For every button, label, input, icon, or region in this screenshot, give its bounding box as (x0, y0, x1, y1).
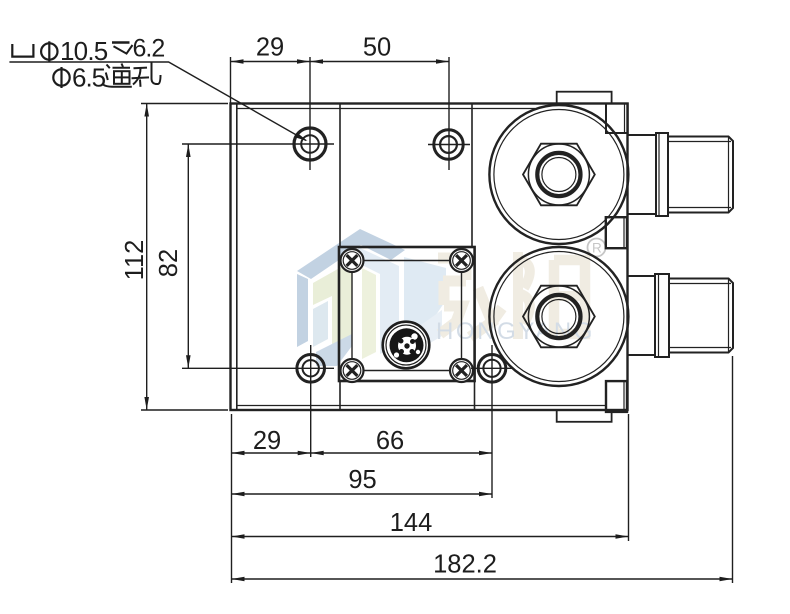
bottom hex nut (523, 286, 595, 348)
dim 112 extension top (141, 103, 228, 105)
bottom port connector ring (655, 274, 669, 357)
hole top-left (counterbore) (294, 128, 326, 160)
dim line 182.2 (232, 578, 733, 580)
extension thread end (732, 356, 734, 583)
bottom raised tab (557, 410, 612, 422)
svg-text:112: 112 (121, 240, 149, 281)
extension hole BL vertical (310, 345, 312, 457)
arrowheads (144, 59, 732, 581)
svg-text:HONGYANG: HONGYANG (436, 318, 595, 345)
dim 82 extension bottom / hole BL centreline (182, 367, 334, 369)
dimension and extension lines (9, 57, 732, 583)
svg-text:29: 29 (253, 427, 281, 455)
extension+centre line hole TL vertical (309, 57, 311, 170)
dimension texts (121, 34, 497, 579)
top port connector boss (628, 135, 657, 214)
leader arrowhead (295, 133, 308, 141)
svg-text:82: 82 (155, 249, 183, 277)
extension hole BR vertical (491, 345, 493, 498)
top port connector thread (668, 137, 733, 213)
bottom port connector thread (669, 279, 733, 353)
dim line 144 (232, 536, 629, 538)
centre line hole BR horizontal (471, 367, 513, 369)
electrical connector box (339, 247, 475, 381)
extension body right bottom (628, 414, 630, 541)
svg-text:29: 29 (256, 34, 284, 62)
watermark chinese char Yang (518, 252, 585, 339)
svg-text:6.5: 6.5 (72, 63, 106, 93)
dim line 112 (146, 104, 148, 411)
dim line 50 top (310, 61, 449, 63)
phi symbol line2 (53, 69, 69, 85)
box inner frame segments (352, 261, 462, 371)
extension line body left top (230, 57, 232, 103)
dim line 95 (232, 493, 493, 495)
watermark chinese char Hong (438, 258, 502, 337)
top-right corner tab (606, 104, 628, 134)
dim line 29 bottom (232, 452, 311, 454)
svg-text:R: R (592, 241, 602, 256)
svg-text:6.2: 6.2 (133, 35, 165, 63)
M12 connector (383, 322, 430, 369)
valve body outline (231, 104, 628, 411)
hole bottom-left (297, 355, 325, 383)
bottom-right tab (606, 381, 627, 412)
depth symbol (112, 41, 130, 43)
watermark cube logo (297, 229, 446, 366)
char tong (103, 64, 132, 87)
svg-text:10.5: 10.5 (60, 36, 108, 66)
leader line counterbore callout (9, 62, 306, 141)
mounting holes (294, 128, 506, 382)
extension+centre line hole TR vertical (448, 57, 450, 170)
counterbore callout (12, 35, 164, 93)
phi symbol line1 (41, 43, 57, 59)
mid-right tab (606, 217, 627, 248)
dim 82 extension top / hole TL centreline (182, 143, 334, 145)
top solenoid can circle (489, 105, 628, 244)
coil body vertical edges (339, 104, 341, 247)
body inner left edge line (236, 104, 238, 410)
body inner top edge line (237, 108, 535, 110)
dim line 29 top (231, 61, 311, 63)
counterbore symbol (12, 44, 33, 57)
dim line 82 (187, 144, 189, 368)
extension body left bottom (231, 414, 233, 583)
dim 112 extension bottom (141, 409, 228, 411)
top hex nut (523, 144, 595, 206)
svg-text:144: 144 (390, 509, 433, 537)
dim line 66 (311, 452, 492, 454)
top port connector ring (656, 133, 668, 216)
top raised tab (557, 92, 612, 104)
bottom solenoid can circle (489, 247, 628, 386)
bottom port connector boss (628, 276, 656, 355)
char kong (132, 63, 161, 87)
svg-text:50: 50 (363, 34, 391, 62)
watermark group (297, 229, 606, 366)
hole top-right (434, 130, 463, 159)
svg-text:182.2: 182.2 (433, 551, 497, 579)
svg-text:95: 95 (348, 466, 376, 494)
box corner screws (341, 249, 474, 382)
centre line hole TR horizontal (428, 144, 470, 146)
body inner bottom edge line (237, 405, 606, 407)
watermark registered mark (588, 239, 606, 257)
hole bottom-right (478, 355, 506, 383)
svg-text:66: 66 (376, 427, 404, 455)
